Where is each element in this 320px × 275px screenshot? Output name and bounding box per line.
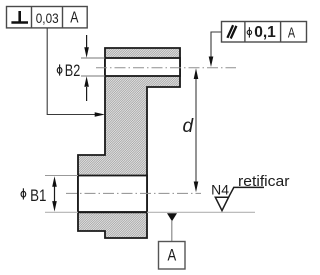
leader from perpendicularity frame (47, 28, 95, 115)
surface finish symbol triangle (215, 197, 228, 210)
svg-text:0,03: 0,03 (36, 10, 59, 26)
dimension B2 lower arrow (86, 87, 88, 101)
surface finish extension (229, 187, 264, 197)
label phi B1 (21, 191, 26, 197)
svg-text:N4: N4 (211, 182, 229, 197)
perpendicularity symbol (11, 11, 28, 23)
feature control frame parallelism (222, 22, 307, 43)
svg-text:retificar: retificar (238, 173, 290, 190)
label phi B2 (57, 67, 62, 73)
part body cross-section outline (78, 48, 180, 238)
svg-text:B2: B2 (65, 61, 81, 80)
centerline bore B1 axis (66, 192, 201, 194)
svg-text:d: d (183, 116, 195, 137)
phi 0,1 tolerance (247, 30, 251, 34)
dimension d line (195, 74, 197, 186)
extension line B1 bottom / datum surface line (45, 211, 255, 213)
bore B1 white band (78, 176, 147, 213)
feature control frame perpendicularity (7, 7, 88, 28)
centerline bore B2 axis (96, 67, 236, 69)
datum A box (159, 242, 186, 270)
svg-text:A: A (168, 246, 177, 264)
dimension B2 upper arrow (86, 35, 88, 48)
svg-text:A: A (288, 25, 295, 41)
dimension B1 double arrow (54, 181, 56, 207)
datum A stem (171, 221, 173, 242)
extension line B1 top (45, 175, 78, 177)
parallelism symbol (227, 25, 236, 38)
svg-text:B1: B1 (30, 186, 46, 205)
extension line B2 top (81, 57, 105, 59)
leader from parallelism frame (211, 32, 222, 58)
extension line B2 bottom (81, 75, 105, 77)
svg-text:A: A (70, 10, 78, 27)
bore B2 white band (105, 58, 180, 76)
svg-text:0,1: 0,1 (254, 24, 276, 41)
datum A triangle (167, 213, 177, 221)
